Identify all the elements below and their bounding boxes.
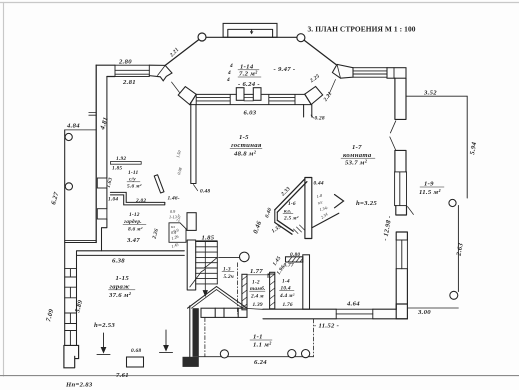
door line under 1.77 (247, 274, 270, 276)
colonnade circle 2 (65, 183, 72, 190)
landing line (219, 256, 239, 258)
east wall upper segment (395, 78, 406, 119)
wall block (187, 213, 196, 231)
garage wall brick box 3 (65, 313, 77, 324)
svg-text:2.02: 2.02 (135, 198, 146, 204)
bay right diagonal wall (304, 40, 336, 64)
thin pointer right gap (328, 80, 335, 96)
NE corner chamfer block (332, 64, 353, 78)
fireplace right chevron (335, 195, 344, 208)
svg-text:6.27: 6.27 (50, 191, 60, 206)
terrace post circle bottom (450, 291, 458, 299)
fireplace lower diagonal (275, 220, 293, 234)
porch floor edge lines (65, 240, 97, 242)
terrace post circle top (449, 199, 456, 206)
svg-text:2.07: 2.07 (175, 213, 182, 222)
svg-text:8.6 м²: 8.6 м² (128, 227, 143, 233)
svg-text:2.80: 2.80 (118, 59, 132, 66)
garage wall brick box 4 (65, 331, 77, 346)
NE corner block (387, 68, 406, 79)
tambour mid wall hatched (270, 272, 275, 309)
svg-text:2.26: 2.26 (151, 228, 160, 241)
svg-text:2.4 м: 2.4 м (250, 294, 264, 300)
tambour mid wall top bracket (268, 274, 275, 278)
dim line 4.84 (65, 129, 96, 131)
svg-text:1.50: 1.50 (175, 149, 182, 158)
svg-text:h=2.53: h=2.53 (94, 322, 115, 329)
svg-text:2.21: 2.21 (168, 47, 180, 59)
svg-text:- 11.52 -: - 11.52 - (314, 323, 339, 330)
north wall door sill (244, 97, 253, 101)
svg-text:1.46-: 1.46- (168, 196, 180, 202)
north wall right arrow block (305, 87, 323, 105)
svg-text:6.24: 6.24 (254, 359, 267, 366)
svg-text:4: 4 (229, 63, 233, 69)
fireplace left vertical (275, 210, 278, 223)
svg-text:4.4 м²: 4.4 м² (279, 293, 295, 299)
east window A (395, 172, 407, 206)
svg-text:- 9.47 -: - 9.47 - (274, 66, 296, 73)
garage wall brick box 1 (65, 269, 77, 277)
north wall pier left of door (236, 88, 244, 101)
fireplace hatch ticks (294, 225, 305, 234)
SE corner block (396, 304, 407, 319)
svg-text:0.80: 0.80 (290, 252, 300, 258)
stair area dash line (237, 263, 239, 314)
porch bottom line (199, 356, 314, 358)
svg-text:1.77: 1.77 (250, 268, 263, 275)
east wall below window A (396, 206, 407, 215)
wall recess box 1 (97, 178, 107, 188)
flue duct slanted (154, 175, 164, 193)
svg-text:1-1: 1-1 (253, 334, 263, 341)
svg-text:1-9: 1-9 (424, 181, 434, 188)
wall end tick (193, 185, 197, 191)
dim line 3.00 (407, 307, 458, 309)
top-left window band 2.80 (115, 65, 149, 76)
bay top wall line (199, 36, 303, 38)
svg-text:0.68: 0.68 (131, 348, 141, 354)
tambour west wall hatched (242, 274, 247, 310)
svg-text:4.84: 4.84 (66, 123, 80, 130)
svg-text:1.76: 1.76 (283, 302, 293, 308)
svg-text:1.92: 1.92 (116, 156, 126, 162)
svg-text:5.6 м²: 5.6 м² (127, 184, 142, 190)
svg-text:2.25: 2.25 (308, 73, 321, 84)
svg-text:4.64: 4.64 (346, 301, 360, 308)
east wall lower segment (396, 269, 407, 310)
svg-text:3.52: 3.52 (423, 89, 437, 96)
stair central arrow (203, 241, 207, 296)
facade sill tick (89, 112, 96, 115)
colonnade left line (64, 130, 66, 346)
svg-text:7.2 м²: 7.2 м² (239, 71, 258, 78)
svg-text:0.48: 0.48 (200, 189, 210, 195)
porch circle 1 (220, 350, 228, 358)
fireplace wall band (305, 178, 312, 239)
svg-text:2.63: 2.63 (455, 242, 464, 257)
stair left stringer (187, 240, 196, 357)
entrance steps band (201, 308, 247, 317)
landing circle (240, 252, 250, 262)
porch east dash line (312, 319, 314, 357)
svg-text:2.33: 2.33 (280, 186, 292, 198)
svg-text:11.5 м²: 11.5 м² (419, 189, 441, 196)
svg-text:1.85: 1.85 (112, 166, 122, 172)
svg-text:1-6: 1-6 (288, 201, 296, 207)
canopy triangle (188, 287, 248, 309)
north wall left arrow block (178, 87, 196, 105)
east door swing (390, 121, 396, 151)
bay balcony window (top bump) (223, 23, 277, 37)
svg-text:2.5 м²: 2.5 м² (283, 216, 299, 222)
svg-text:1-15: 1-15 (116, 275, 130, 282)
down arrow 2 (160, 330, 173, 353)
hatched stub 0.80 (286, 257, 303, 262)
NW corner chamfer block (149, 65, 172, 81)
left wall inner line (102, 77, 107, 251)
down arrow 1 (97, 333, 110, 355)
fireplace right long diagonal (312, 213, 339, 228)
svg-text:4: 4 (226, 77, 230, 83)
page frame top (0, 2, 519, 4)
bay column circle left (198, 33, 206, 41)
north wall pier right of door (253, 88, 261, 101)
top-right window band 3.52 area (353, 68, 387, 78)
colonnade circle 1 (65, 133, 72, 140)
svg-text:1-4: 1-4 (282, 279, 290, 285)
svg-text:1.1 м²: 1.1 м² (253, 342, 272, 349)
svg-text:5.89: 5.89 (74, 299, 84, 314)
door pillar rect (127, 357, 144, 367)
svg-text:7.61: 7.61 (116, 372, 129, 379)
porch circle 3 (302, 350, 310, 358)
terrace lower east line (457, 206, 459, 292)
garage SW pier (64, 345, 79, 367)
svg-text:Нп=2.83: Нп=2.83 (65, 382, 93, 389)
svg-text:0.9: 0.9 (170, 209, 176, 214)
left wall outer line (95, 65, 97, 242)
south window 4.64 (336, 309, 373, 319)
svg-text:комната: комната (343, 152, 372, 159)
svg-text:гостиная: гостиная (231, 142, 262, 149)
bay column circle right (297, 34, 305, 42)
svg-text:0.9: 0.9 (173, 227, 180, 234)
page frame bottom rule (0, 375, 519, 377)
bay left diagonal wall (165, 40, 199, 66)
svg-text:1.35: 1.35 (271, 224, 283, 235)
svg-text:0.46: 0.46 (252, 220, 263, 235)
terrace east line (466, 96, 468, 198)
svg-text:1-8: 1-8 (316, 192, 324, 199)
steps-to-wall connector (247, 308, 263, 311)
porch black L footing (183, 357, 199, 367)
svg-text:гардер.: гардер. (124, 218, 142, 225)
north wall window left (196, 94, 230, 104)
top-left wall segment to corner (96, 65, 115, 76)
svg-text:1-7: 1-7 (352, 144, 362, 151)
svg-text:1-11: 1-11 (128, 170, 138, 176)
svg-text:2.81: 2.81 (122, 79, 136, 86)
svg-text:1-2: 1-2 (252, 280, 260, 286)
svg-text:4.81: 4.81 (99, 116, 110, 131)
svg-text:0.28: 0.28 (315, 116, 325, 122)
svg-text:- 6.24 -: - 6.24 - (238, 81, 260, 88)
page frame left (3, 3, 5, 377)
svg-text:1.63: 1.63 (106, 177, 114, 189)
svg-text:5.94: 5.94 (469, 141, 478, 155)
east window B (396, 240, 407, 269)
svg-text:48.8 м²: 48.8 м² (233, 151, 257, 158)
garage wall brick box 2 (65, 287, 77, 298)
east wall below terrace door (396, 232, 407, 240)
svg-text:5.2ч: 5.2ч (224, 274, 234, 280)
closet 1-13 box (169, 223, 186, 243)
su L wall line A (110, 192, 164, 202)
svg-text:1.45: 1.45 (171, 242, 180, 249)
svg-text:6.38: 6.38 (112, 258, 125, 265)
svg-text:0.40: 0.40 (264, 207, 273, 219)
svg-text:1-14: 1-14 (240, 64, 254, 71)
svg-text:1-5: 1-5 (239, 134, 249, 141)
stair right stringer (216, 242, 218, 284)
room 1-4 east wall (303, 255, 310, 309)
stair treads (196, 242, 218, 284)
north wall continuous bottom line (190, 104, 312, 106)
fireplace upper diagonal double (275, 179, 307, 212)
svg-text:h=3.25: h=3.25 (356, 200, 377, 207)
thin pointer left gap (172, 82, 180, 93)
svg-text:2.21: 2.21 (322, 91, 333, 104)
dim line 3.52 (406, 95, 467, 97)
svg-text:0.98: 0.98 (176, 166, 183, 175)
svg-text:гараж: гараж (110, 284, 131, 291)
svg-text:6.03: 6.03 (244, 110, 257, 117)
svg-text:4: 4 (227, 70, 231, 76)
svg-text:0.44: 0.44 (314, 181, 324, 187)
svg-text:- 12.98 -: - 12.98 - (382, 215, 393, 241)
NE stub wall below arrow (304, 105, 314, 119)
svg-text:3.00: 3.00 (417, 309, 431, 316)
stair up diagonal with break (190, 257, 218, 287)
porch west dash line (204, 318, 206, 357)
garage west wall inner line (76, 255, 78, 345)
north wall top line (196, 93, 305, 95)
living room west wall (191, 102, 196, 183)
su L wall line B (110, 195, 164, 205)
svg-text:2.34: 2.34 (320, 212, 329, 220)
svg-text:7.09: 7.09 (45, 308, 55, 323)
shelf in su room (110, 162, 141, 165)
svg-text:37.6 м²: 37.6 м² (108, 292, 132, 299)
svg-text:п/с: п/с (317, 199, 323, 205)
svg-text:1-12: 1-12 (129, 212, 140, 218)
porch thick left bar (193, 308, 199, 357)
south wall band (263, 309, 407, 319)
svg-text:3. ПЛАН СТРОЕНИЯ М 1 : 100: 3. ПЛАН СТРОЕНИЯ М 1 : 100 (308, 24, 416, 33)
svg-text:3.47: 3.47 (126, 237, 140, 244)
terrace door pointer (408, 207, 414, 215)
garage top wall (77, 251, 185, 256)
porch circle 2 (288, 350, 296, 358)
svg-text:1.54-: 1.54- (319, 205, 329, 212)
north wall window right (269, 94, 295, 104)
wall recess box 2 (97, 209, 107, 219)
svg-text:53.7 м²: 53.7 м² (345, 160, 368, 167)
svg-text:1.39: 1.39 (253, 302, 263, 308)
east wall mid segment (395, 150, 406, 172)
svg-text:1.04: 1.04 (108, 197, 118, 203)
